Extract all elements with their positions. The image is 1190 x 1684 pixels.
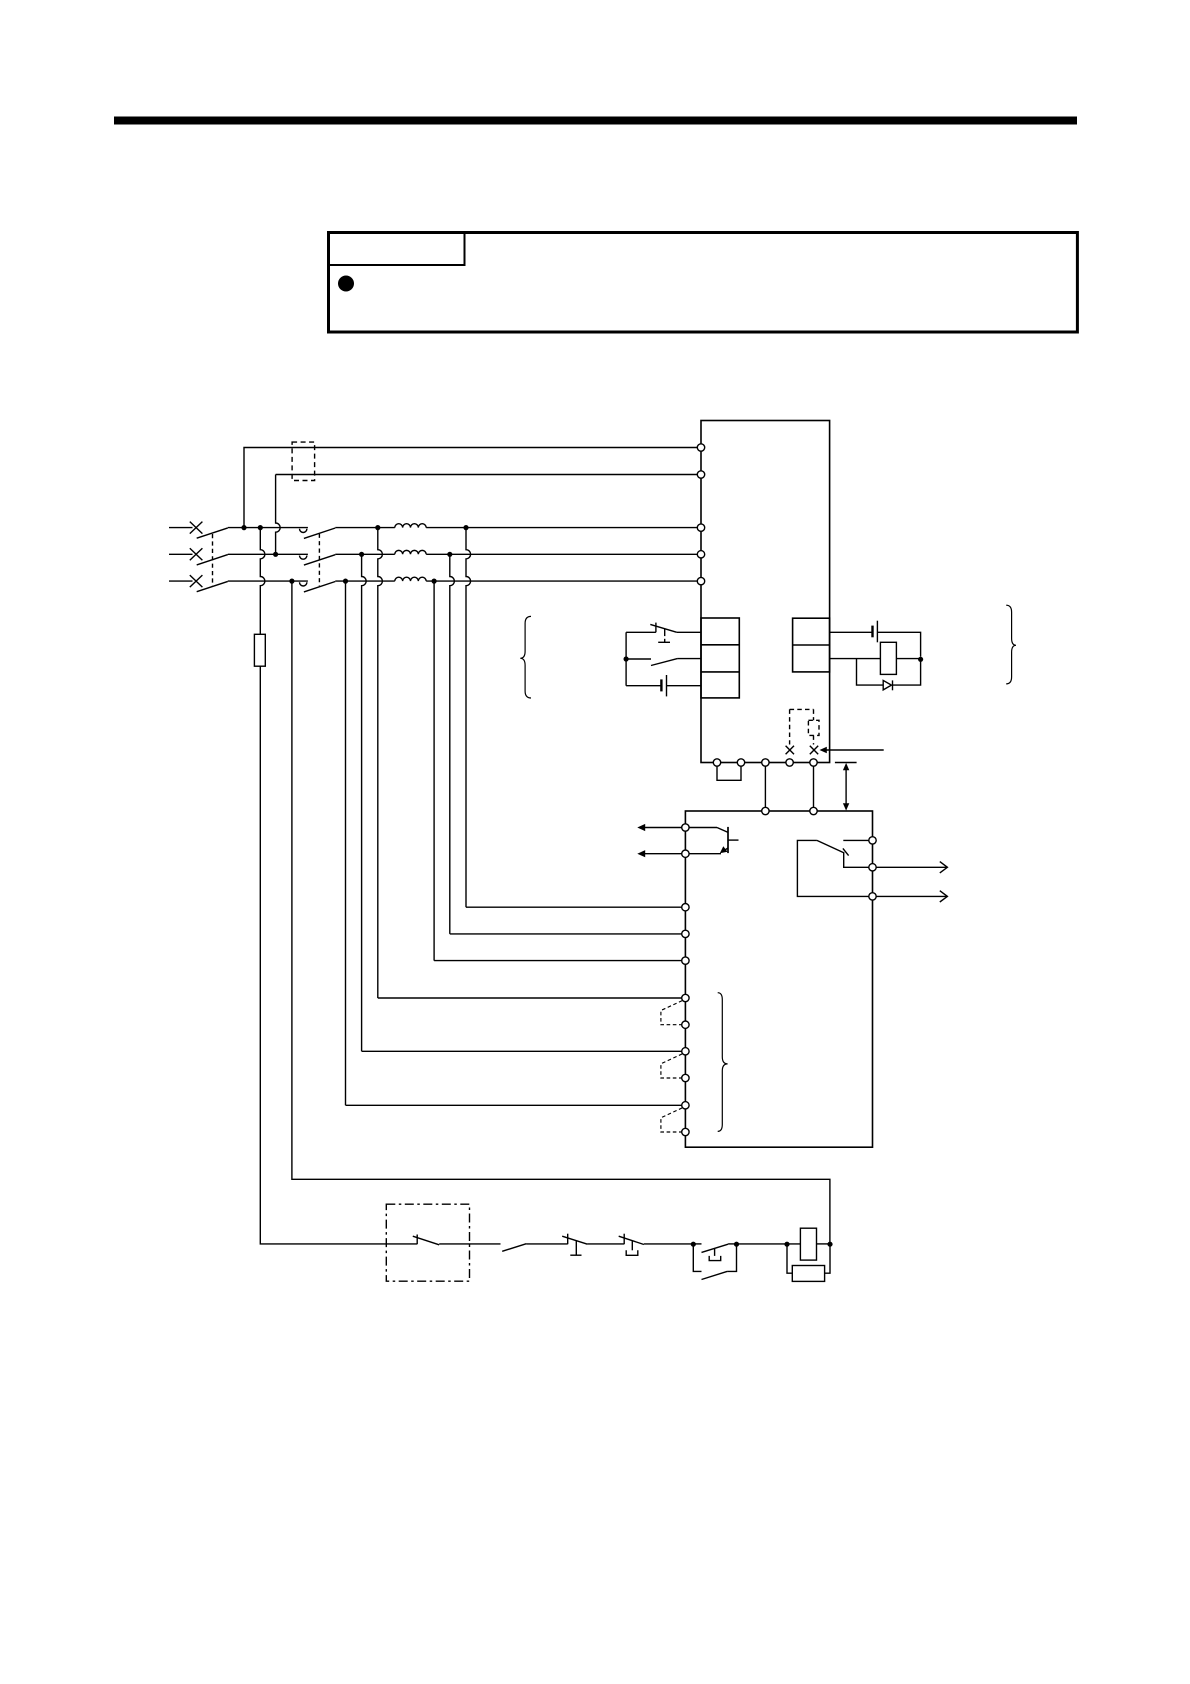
terminal V (810, 759, 817, 766)
arrow forced stop pointer (827, 749, 884, 751)
jumper open point X right (810, 746, 818, 755)
arrow ZSP output (644, 853, 683, 855)
contactor MC pole S blade (304, 555, 335, 565)
breaker NFB pole T open point (190, 575, 203, 587)
terminal L21 (697, 471, 704, 478)
wire to OFF button (587, 1243, 624, 1245)
interface block CN2 pins (793, 618, 830, 672)
wire forced-stop branch (626, 631, 656, 633)
wire reactor to amplifier terminal R (426, 527, 697, 529)
dashed jumper VDD-COM (790, 709, 814, 744)
node ON button left (691, 1242, 696, 1247)
node MC coil left (784, 1242, 789, 1247)
diode surge suppressor (883, 680, 891, 690)
terminal L2 (697, 551, 704, 558)
terminal relay common (869, 837, 876, 844)
brake coil B (880, 642, 896, 674)
terminal relay NO (869, 864, 876, 871)
wire V-phase tap after reactor to CN1 (450, 554, 455, 934)
wire brake supply (830, 631, 873, 633)
dashed option link (661, 1001, 682, 1025)
terminal P (713, 759, 720, 766)
wire EMG to pin (677, 631, 701, 633)
inductor L pole R (395, 524, 426, 528)
wire control return run (292, 581, 830, 1244)
arrow relay NO output (876, 866, 947, 868)
node W-phase tap after MC (375, 525, 380, 530)
wire power supply R (169, 527, 193, 529)
wire battery to pin (667, 685, 702, 687)
brace CN1 input group (718, 993, 728, 1132)
inductor L pole S (395, 550, 426, 554)
wire sequence to limit switch (439, 1243, 500, 1245)
terminal ZSP output (682, 850, 689, 857)
dash-dot external sequence box (386, 1204, 469, 1281)
wire brake coil row (830, 658, 881, 660)
relay contact RA pivot lead (797, 840, 868, 896)
node W-phase tap after reactor (463, 525, 468, 530)
terminal DI1 (682, 994, 689, 1001)
terminal ALM output (682, 824, 689, 831)
node control feed tap on phase R (258, 525, 263, 530)
contactor MC pole T blade (304, 582, 335, 592)
terminal DI3 option (682, 1128, 689, 1135)
wire L21 riser (276, 475, 281, 555)
wire battery branch (626, 685, 661, 687)
wire diode branch drop (857, 659, 884, 686)
wire W-phase tap after MC to CN1 (378, 528, 383, 998)
breaker NFB pole R open point (190, 522, 203, 534)
wire fuse to emergency-stop chain (260, 666, 417, 1244)
wire NFB to MC pole T (228, 580, 308, 582)
terminal L1 (697, 524, 704, 531)
terminal C (762, 759, 769, 766)
terminal U (786, 759, 793, 766)
terminal DI2 (682, 1048, 689, 1055)
battery VDD 24V (660, 679, 662, 691)
wire V-phase tap after MC to CN1 (362, 554, 367, 1051)
switch operation-ready (502, 1244, 526, 1252)
relay contact RA fixed (843, 839, 869, 841)
switch external sequence contact (416, 1235, 418, 1245)
surge absorber leads (787, 1244, 830, 1273)
brace brake group (1006, 605, 1016, 684)
wire U-phase tap after reactor to CN1 (433, 581, 435, 961)
wire servo-on branch (626, 658, 651, 660)
terminal V input (682, 930, 689, 937)
wire SON to pin (677, 658, 701, 660)
wire MC to reactor L pole R (335, 527, 395, 529)
wire MC to reactor L pole S (335, 553, 395, 555)
breaker NFB mechanical tie (212, 534, 214, 587)
contactor MC mechanical tie (318, 534, 320, 587)
battery brake 24V (871, 626, 873, 638)
node ON button right (734, 1242, 739, 1247)
breaker NFB pole S blade (197, 555, 228, 565)
interface block CN1 pins (701, 618, 739, 698)
node control return tap on phase T (289, 579, 294, 584)
switch SON servo-on (651, 659, 677, 666)
servo amplifier box (701, 421, 830, 763)
arrow relay NC output (876, 895, 947, 897)
wire coil to node (896, 658, 920, 660)
brace main circuit group (520, 616, 531, 698)
wire MC to reactor L pole T (335, 580, 395, 582)
dashed option box on L11/L21 (292, 442, 315, 480)
wire U-phase tap after MC to CN1 (345, 581, 347, 1105)
node L21 tap on phase S (273, 552, 278, 557)
node V-phase tap after MC (359, 552, 364, 557)
wire NFB to MC pole S (228, 553, 308, 555)
caution box title cell (329, 233, 465, 265)
node U-phase tap after MC (343, 579, 348, 584)
caution bullet (338, 276, 354, 292)
switch OFF pushbutton (623, 1234, 625, 1245)
breaker NFB pole T blade (197, 581, 228, 591)
wire common riser left (625, 632, 627, 685)
inductor L pole T (395, 577, 426, 581)
page top rule (114, 117, 1077, 125)
wire to ON button (644, 1243, 693, 1245)
terminal relay NC (869, 893, 876, 900)
terminal DI2 option (682, 1074, 689, 1081)
wire control feed with fuse drop (260, 528, 265, 635)
wire L11 riser (244, 448, 697, 528)
contactor MC pole R fixed contact (300, 529, 307, 533)
wire NFB to MC pole R (228, 527, 308, 529)
breaker NFB pole S open point (190, 548, 203, 560)
terminal D (737, 759, 744, 766)
dashed option link (661, 1054, 682, 1078)
switch EMG forced stop (655, 623, 657, 633)
terminal U input (682, 904, 689, 911)
wire W-phase tap after reactor to CN1 (466, 528, 471, 908)
arrow ALM output (644, 827, 683, 829)
wire MC coil to return (817, 1243, 831, 1245)
jumper P-D (717, 766, 741, 780)
terminal L3 (697, 577, 704, 584)
jumper open point X left (786, 746, 794, 755)
node servo-on branch (624, 656, 629, 661)
contactor MC pole T fixed contact (300, 582, 307, 586)
terminal W input (682, 957, 689, 964)
dimension arrow amp to CN1 box (845, 767, 847, 807)
node brake common (918, 657, 923, 662)
switch ON pushbutton (693, 1243, 701, 1245)
terminal box C (762, 807, 769, 814)
surge absorber (792, 1266, 824, 1282)
wire terminal C to box (764, 766, 766, 807)
switch emergency stop EMG (567, 1234, 569, 1245)
dashed resistor in jumper (808, 720, 819, 735)
wire diode to node (893, 659, 921, 685)
relay contact RA blade (817, 840, 844, 853)
switch MC self-holding contact (693, 1244, 701, 1271)
terminal box V (810, 807, 817, 814)
transistor open-collector output (689, 827, 717, 829)
caution box frame (329, 233, 1078, 333)
wire to emergency stop (526, 1243, 567, 1245)
wire reactor to amplifier terminal T (426, 580, 697, 582)
node MC coil right (827, 1242, 832, 1247)
fuse F (254, 634, 265, 666)
wire power supply S (169, 553, 193, 555)
wire brake supply to node (877, 632, 920, 656)
wire power supply T (169, 580, 193, 582)
node U-phase tap after reactor (432, 579, 437, 584)
dashed option link (661, 1108, 682, 1132)
terminal DI1 option (682, 1021, 689, 1028)
node L11 tap on phase R (241, 525, 246, 530)
terminal DI3 (682, 1102, 689, 1109)
terminal L11 (697, 444, 704, 451)
node V-phase tap after reactor (447, 552, 452, 557)
breaker NFB pole R blade (197, 528, 228, 538)
wire terminal V to box (813, 766, 815, 807)
coil MC (800, 1228, 816, 1260)
wire to MC coil (737, 1243, 801, 1245)
controller interface box (685, 811, 872, 1147)
contactor MC pole R blade (304, 528, 335, 538)
wire reactor to amplifier terminal S (426, 553, 697, 555)
contactor MC pole S fixed contact (300, 556, 307, 560)
tick below amplifier (835, 762, 857, 764)
relay contact RA moving lead (844, 853, 869, 867)
